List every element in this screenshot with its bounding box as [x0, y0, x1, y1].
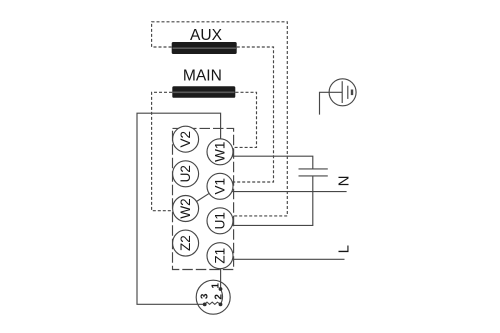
terminal U2	[173, 161, 199, 187]
svg-text:V1: V1	[213, 178, 228, 195]
terminal V2	[173, 126, 199, 152]
wire W1 to thermal switch terminal 3	[137, 113, 221, 304]
terminal block outline (dashed rect)	[173, 128, 234, 269]
terminal W2	[173, 196, 199, 222]
svg-text:Z1: Z1	[213, 248, 228, 264]
earth (protective ground) symbol	[329, 79, 356, 106]
svg-text:U1: U1	[213, 212, 228, 229]
earth symbol lead wire	[320, 92, 343, 114]
wire AUX left to top loop to U1 (dashed)	[152, 22, 288, 216]
svg-text:2: 2	[214, 294, 225, 300]
wire MAIN left to W2 (dashed)	[152, 92, 173, 210]
svg-text:L: L	[336, 245, 353, 253]
thermal protector contact arc	[221, 289, 223, 304]
thermal protector heater element	[205, 302, 221, 304]
wire Z1 to thermal switch terminal 1	[220, 269, 222, 289]
terminal W1	[207, 139, 233, 165]
svg-text:V2: V2	[178, 131, 193, 148]
svg-text:U2: U2	[178, 165, 193, 182]
terminal U1	[207, 208, 233, 234]
wire AUX right to V1 (dashed)	[233, 47, 274, 182]
terminal V1	[207, 173, 233, 199]
wire capacitor bottom to U1	[232, 176, 313, 226]
thermal protector S1 outline	[196, 280, 230, 314]
svg-text:N: N	[335, 176, 352, 187]
svg-text:3: 3	[200, 293, 211, 299]
wire Z1 to L	[232, 258, 344, 260]
svg-text:W2: W2	[178, 198, 193, 218]
winding AUX bar	[172, 42, 237, 54]
winding MAIN bar	[172, 86, 235, 98]
wire MAIN right to W1 (dashed)	[232, 92, 257, 147]
wire link W2 to V1	[197, 193, 210, 201]
thermal protector terminal dot 2	[219, 303, 223, 307]
svg-text:W1: W1	[213, 142, 228, 162]
capacitor C	[299, 169, 328, 176]
wire W1 to capacitor top	[232, 156, 313, 169]
svg-text:1: 1	[211, 283, 222, 289]
terminal Z1	[207, 243, 233, 269]
svg-text:MAIN: MAIN	[183, 68, 222, 85]
thermal protector terminal dot 3	[203, 303, 207, 307]
svg-text:AUX: AUX	[190, 27, 223, 44]
svg-text:Z2: Z2	[178, 235, 193, 251]
terminal Z2	[173, 230, 199, 256]
thermal protector terminal dot 1	[219, 287, 223, 291]
wire V1 to N	[232, 191, 347, 193]
